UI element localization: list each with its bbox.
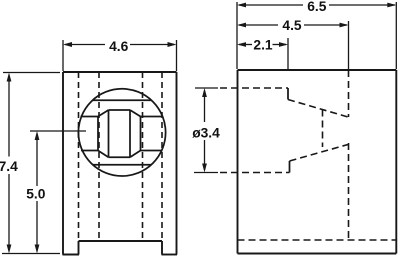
bottom ext line (2, 253, 60, 255)
right leg bottom (162, 254, 178, 256)
dim line (65, 44, 105, 46)
common left ext line (236, 2, 238, 69)
dimension 7.4 (2, 73, 60, 254)
barrel chamfer bottom-right (130, 151, 141, 158)
hidden line x=162 (161, 72, 163, 241)
svg-text:6.5: 6.5 (307, 0, 327, 14)
barrel chamfer top-left (98, 110, 109, 117)
left edge (237, 70, 239, 254)
hidden line x=78.5 (78, 72, 80, 241)
taper bottom slant (290, 145, 349, 162)
dim line 6.5 (239, 4, 303, 6)
svg-text:4.5: 4.5 (282, 18, 302, 33)
shelf line between legs (79, 240, 163, 242)
barrel bottom edge (109, 156, 131, 158)
left leg inner edge (78, 241, 80, 255)
top ext line (30, 130, 86, 132)
right edge (395, 70, 397, 254)
circle interior details (81, 100, 163, 165)
taper top slant (288, 100, 348, 118)
front view body outline (63, 72, 178, 255)
bottom ext line (194, 172, 218, 174)
left outer edge (62, 72, 64, 255)
dim line upper (8, 76, 10, 157)
side view hidden lines (220, 70, 396, 240)
barrel chamfer top-right (130, 110, 141, 117)
svg-text:4.6: 4.6 (109, 39, 129, 54)
front view hidden lines (dashed verticals) (79, 72, 163, 241)
barrel chamfer bottom-left (98, 151, 109, 158)
hidden shelf line (238, 239, 397, 241)
top edge (238, 69, 397, 71)
dim line lower (204, 140, 206, 170)
right leg inner edge (161, 241, 163, 255)
wing line lower-left (81, 150, 98, 152)
hole bottom edge (220, 172, 290, 174)
svg-text:2.1: 2.1 (253, 38, 273, 53)
top edge (63, 71, 177, 73)
top chord (93, 99, 152, 101)
top ext line (3, 72, 60, 74)
hole step bottom (289, 161, 291, 173)
dimensions 6.5 / 4.5 / 2.1 (237, 2, 396, 69)
front view circle (hole) (78, 89, 165, 176)
hidden wall x=348.5 (348, 70, 350, 117)
dimension 5.0 (30, 131, 86, 250)
dim line upper (36, 134, 38, 186)
svg-text:5.0: 5.0 (26, 187, 46, 202)
barrel left edge (97, 117, 99, 151)
ext line 4.5 (348, 21, 350, 69)
side view outline (238, 70, 397, 254)
hidden wall x=348.5 lower part (348, 143, 350, 240)
hidden line x=99 (98, 72, 100, 241)
dim line upper (204, 91, 206, 122)
hole top edge (220, 87, 288, 89)
barrel top edge (109, 109, 131, 111)
hidden line x=143 (142, 72, 144, 241)
wing line lower-right (141, 150, 163, 152)
ext line left x=63 (62, 40, 64, 71)
ext line right x=177 (176, 40, 178, 71)
wing line upper-left (81, 116, 99, 118)
bottom chord (93, 164, 152, 166)
barrel right edge (140, 117, 142, 151)
dimension 4.6 (63, 40, 177, 71)
ext line 2.1 (287, 38, 289, 69)
svg-text:7.4: 7.4 (0, 159, 18, 174)
dim line 2.1 (239, 44, 252, 46)
right ext line 6.5 (395, 2, 397, 69)
dim line 4.5 (239, 24, 278, 26)
wing line upper-right (141, 116, 163, 118)
right outer edge (176, 72, 178, 255)
svg-text:ø3.4: ø3.4 (192, 126, 220, 141)
dimension dia 3.4 (194, 88, 218, 173)
taper mid vertical (322, 110, 324, 148)
dim line lower (36, 201, 38, 250)
top ext line (195, 87, 218, 89)
barrel inner right vertical (129, 110, 131, 157)
left leg bottom (63, 254, 80, 256)
barrel inner left vertical (108, 110, 110, 157)
dim line lower (8, 174, 10, 250)
bottom edge (238, 253, 397, 255)
hole step top (287, 88, 289, 100)
